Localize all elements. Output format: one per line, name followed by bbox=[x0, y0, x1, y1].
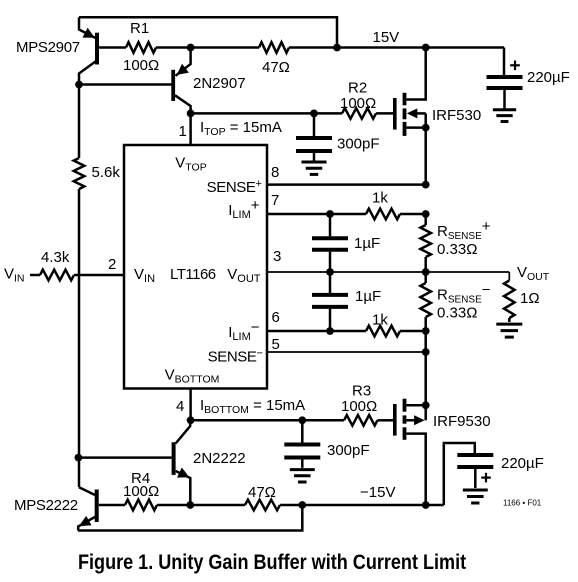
transistor 2N2222 emitter with arrow bbox=[176, 468, 191, 506]
label figure number 1166 F01 bbox=[503, 499, 542, 508]
label RSENSE- value bbox=[437, 305, 477, 322]
wire right rail pin5 to IRF9530 bbox=[424, 352, 427, 405]
svg-text:100Ω: 100Ω bbox=[341, 398, 377, 415]
label VTOP pin name bbox=[175, 155, 206, 174]
label VOUT pin name bbox=[227, 266, 261, 285]
wire left vertical rail lower bbox=[78, 189, 81, 458]
node pin7 cap junction bbox=[326, 210, 334, 218]
svg-text:0.33Ω: 0.33Ω bbox=[437, 305, 477, 322]
label pin 7 bbox=[271, 192, 279, 209]
wire left vertical rail upper bbox=[78, 85, 81, 159]
wire R3 to IRF9530 gate bbox=[378, 419, 394, 422]
svg-text:5: 5 bbox=[272, 336, 280, 353]
svg-text:SENSE+: SENSE+ bbox=[207, 178, 262, 196]
svg-text:2N2907: 2N2907 bbox=[193, 75, 246, 92]
transistor IRF9530 gate bar bbox=[393, 404, 397, 436]
ground 300pF bottom bbox=[290, 470, 315, 482]
label IRF9530 bbox=[433, 413, 491, 430]
resistor RSENSE- zigzag bbox=[420, 272, 431, 331]
node pin6 cap junction bbox=[326, 327, 334, 335]
op-amp U1 LT1166 box bbox=[124, 145, 267, 389]
label 220uF top bbox=[527, 69, 570, 86]
svg-text:300pF: 300pF bbox=[327, 442, 370, 459]
wire 47ohm to -15V rail bbox=[280, 504, 444, 507]
transistor MPS2907 collector bbox=[79, 62, 96, 85]
ground 1 ohm load bbox=[496, 324, 522, 337]
resistor 1k top zigzag bbox=[366, 209, 400, 220]
label 15V bbox=[373, 29, 400, 46]
svg-text:SENSE−: SENSE− bbox=[208, 348, 263, 366]
wire bottom return bbox=[78, 505, 302, 531]
transistor IRF9530 drain stub bbox=[406, 434, 425, 505]
transistor IRF9530 source stub bbox=[406, 404, 425, 407]
node left bias node bbox=[75, 454, 83, 462]
label plus top capacitor bbox=[510, 61, 520, 71]
resistor 1k bottom zigzag bbox=[366, 326, 400, 337]
wire top rail from MPS2907 emitter to 15V corner bbox=[79, 17, 337, 47]
svg-text:0.33Ω: 0.33Ω bbox=[437, 241, 477, 258]
label pin 1 bbox=[179, 123, 187, 140]
svg-text:5.6k: 5.6k bbox=[92, 164, 121, 181]
wire pin 1 vertical into box bbox=[189, 113, 192, 145]
node pin6 rail junction bbox=[422, 327, 430, 335]
transistor MPS2222 base bar bbox=[95, 490, 99, 523]
svg-text:IRF530: IRF530 bbox=[432, 107, 481, 124]
resistor R1 zigzag bbox=[126, 42, 156, 53]
transistor MPS2907 base bar bbox=[95, 33, 99, 65]
wire 2N2222 base wire bbox=[79, 456, 172, 459]
svg-text:8: 8 bbox=[271, 164, 279, 181]
label plus bottom capacitor bbox=[481, 473, 491, 483]
node 300pF bottom junction bbox=[298, 416, 306, 424]
label 220uF bottom bbox=[501, 455, 544, 472]
label SENSE+ pin name bbox=[207, 178, 262, 196]
wire VOUT corner down bbox=[508, 272, 510, 281]
wire pin 7 to 1k bbox=[267, 213, 366, 216]
wire 220uF bottom to ground bbox=[474, 469, 477, 488]
transistor 2N2907 emitter with arrow bbox=[176, 48, 191, 76]
transistor IRF530 source stub bbox=[406, 126, 425, 129]
label RSENSE- bbox=[437, 282, 491, 306]
ground 220uF top bbox=[493, 110, 516, 122]
wire -15V to bottom capacitor bbox=[444, 443, 475, 505]
svg-text:3: 3 bbox=[273, 248, 281, 265]
transistor MPS2907 emitter with arrow bbox=[79, 17, 96, 38]
label MPS2907 bbox=[16, 39, 80, 56]
resistor RSENSE+ zigzag bbox=[420, 214, 431, 272]
label RSENSE+ value bbox=[437, 241, 477, 258]
node pin 4 junction bbox=[187, 416, 195, 424]
label VBOTTOM pin name bbox=[165, 367, 220, 386]
svg-text:100Ω: 100Ω bbox=[340, 95, 376, 112]
ground 300pF top bbox=[302, 162, 327, 174]
node pin8 junction bbox=[422, 181, 430, 189]
svg-text:7: 7 bbox=[271, 192, 279, 209]
node 2N2222 emitter junction bbox=[186, 501, 194, 509]
svg-text:100Ω: 100Ω bbox=[123, 483, 159, 500]
node pin 1 junction bbox=[187, 110, 195, 118]
label 2N2222 bbox=[193, 450, 246, 467]
resistor 5.6k zigzag bbox=[74, 158, 85, 189]
wire pin 3 VOUT bbox=[267, 271, 509, 273]
label R4 bbox=[131, 470, 150, 487]
wire 4.3k to pin 2 bbox=[74, 274, 124, 277]
label 1k bottom bbox=[372, 312, 388, 329]
transistor 2N2907 collector bbox=[175, 95, 191, 113]
label ILIM+ pin name bbox=[228, 197, 260, 221]
wire pin1 to R2 bbox=[191, 112, 342, 115]
label VOUT terminal bbox=[517, 264, 550, 283]
svg-text:R3: R3 bbox=[352, 383, 371, 400]
wire R2 to IRF530 gate bbox=[376, 112, 393, 115]
label ILIM- pin name bbox=[228, 319, 260, 343]
wire MPS2222 base to R4 bbox=[99, 504, 125, 507]
label MPS2222 bbox=[14, 497, 78, 514]
svg-text:1k: 1k bbox=[372, 312, 388, 329]
transistor 2N2222 base bar bbox=[172, 442, 176, 475]
node pin7 rail junction bbox=[422, 210, 430, 218]
svg-text:−15V: −15V bbox=[360, 484, 395, 501]
wire right rail IRF530 source to pin8 bbox=[424, 128, 427, 185]
label 300pF bottom bbox=[327, 442, 370, 459]
transistor MPS2222 emitter with arrow bbox=[78, 516, 95, 531]
capacitor 300pF bottom bbox=[284, 420, 320, 468]
resistor R3 zigzag bbox=[344, 415, 377, 426]
label R4 value bbox=[123, 483, 159, 500]
node IRF530 drain junction on 15V rail bbox=[422, 44, 430, 52]
label 47&#937; top bbox=[262, 59, 290, 76]
label VIN pin name bbox=[134, 266, 155, 285]
wire left rail to MPS2222 collector bbox=[78, 458, 81, 488]
svg-text:100Ω: 100Ω bbox=[123, 57, 159, 74]
ground 220uF bottom bbox=[463, 490, 488, 503]
svg-text:MPS2222: MPS2222 bbox=[14, 497, 78, 514]
label 1uF bottom bbox=[355, 288, 381, 305]
label -15V bbox=[360, 484, 395, 501]
label 2N2907 bbox=[193, 75, 246, 92]
transistor IRF9530 body arrow bbox=[406, 405, 425, 425]
resistor 47&#937; top zigzag bbox=[259, 42, 289, 53]
capacitor 1uF top bbox=[312, 214, 348, 272]
wire 220uF top to ground bbox=[503, 90, 506, 109]
label pin 2 bbox=[108, 256, 116, 273]
capacitor 300pF top bbox=[296, 113, 332, 160]
wire pin 5 SENSE- bbox=[267, 351, 426, 353]
node bottom return junction bbox=[298, 501, 306, 509]
resistor 4.3k zigzag bbox=[40, 270, 74, 281]
wire pin 4 vertical bbox=[189, 389, 192, 421]
transistor 2N2907 base bar bbox=[171, 70, 175, 101]
label pin 8 bbox=[271, 164, 279, 181]
wire right rail pin6 to pin5 bbox=[424, 331, 427, 352]
transistor 2N2222 collector bbox=[176, 420, 191, 443]
svg-text:220µF: 220µF bbox=[501, 455, 544, 472]
svg-text:2: 2 bbox=[108, 256, 116, 273]
wire pin4 to R3 bbox=[191, 419, 344, 422]
label VIN input terminal bbox=[4, 266, 25, 285]
wire 15V rail to top capacitor bbox=[503, 48, 506, 76]
label R2 value bbox=[340, 95, 376, 112]
node pin3 rail junction bbox=[422, 268, 430, 276]
resistor R4 zigzag bbox=[125, 500, 157, 511]
capacitor 220uF top plates bbox=[487, 77, 523, 88]
label 1k top bbox=[372, 190, 388, 207]
label pin 5 bbox=[272, 336, 280, 353]
transistor IRF530 drain stub bbox=[406, 48, 425, 100]
node pin5 rail junction bbox=[422, 348, 430, 356]
label R1 bbox=[130, 20, 149, 37]
svg-text:4: 4 bbox=[176, 398, 184, 415]
svg-text:R2: R2 bbox=[348, 80, 367, 97]
svg-text:220µF: 220µF bbox=[527, 69, 570, 86]
label 1&#937; bbox=[520, 290, 540, 307]
svg-text:1166 • F01: 1166 • F01 bbox=[503, 499, 542, 508]
label 300pF top bbox=[337, 136, 380, 153]
wire 1ohm to ground bbox=[508, 318, 511, 322]
capacitor 1uF bottom bbox=[312, 272, 348, 331]
svg-text:MPS2907: MPS2907 bbox=[16, 39, 80, 56]
transistor IRF530 body arrow bbox=[407, 108, 426, 127]
svg-text:LT1166: LT1166 bbox=[170, 266, 216, 283]
svg-text:300pF: 300pF bbox=[337, 136, 380, 153]
label IRF530 bbox=[432, 107, 481, 124]
transistor MPS2222 collector bbox=[79, 487, 95, 495]
wire R4 to 2N2222 emitter node bbox=[157, 504, 245, 507]
label ITOP current bbox=[200, 119, 282, 138]
svg-text:4.3k: 4.3k bbox=[41, 249, 70, 266]
label 1uF top bbox=[354, 235, 380, 252]
node IRF9530 source junction bbox=[422, 401, 430, 409]
resistor 1&#937; load zigzag bbox=[504, 281, 515, 318]
label 47&#937; bottom bbox=[248, 484, 276, 501]
svg-text:2N2222: 2N2222 bbox=[193, 450, 246, 467]
wire 1k bottom to rail bbox=[400, 330, 426, 333]
label R3 value bbox=[341, 398, 377, 415]
node 15V junction at rail corner bbox=[333, 44, 341, 52]
wire pin 6 to 1k bbox=[267, 330, 366, 333]
svg-text:1k: 1k bbox=[372, 190, 388, 207]
svg-text:IRF9530: IRF9530 bbox=[433, 413, 491, 430]
resistor R2 zigzag bbox=[342, 108, 376, 119]
wire 1k to right rail bbox=[400, 213, 426, 216]
label IBOTTOM current bbox=[200, 397, 305, 416]
svg-text:R1: R1 bbox=[130, 20, 149, 37]
label SENSE- pin name bbox=[208, 348, 263, 366]
label LT1166 bbox=[170, 266, 216, 283]
wire 15V horizontal rail bbox=[99, 46, 504, 49]
node IRF530 source junction bbox=[422, 124, 430, 132]
svg-text:1µF: 1µF bbox=[355, 288, 381, 305]
label pin 4 bbox=[176, 398, 184, 415]
svg-text:47Ω: 47Ω bbox=[262, 59, 290, 76]
node 300pF top junction bbox=[310, 110, 318, 118]
node pin3 cap junction bbox=[326, 268, 334, 276]
node MPS2907 collector junction bbox=[75, 81, 83, 89]
label 4.3k bbox=[41, 249, 70, 266]
label pin 3 bbox=[273, 248, 281, 265]
wire VIN stub bbox=[30, 274, 40, 277]
svg-text:6: 6 bbox=[272, 309, 280, 326]
transistor IRF530 gate bar bbox=[393, 98, 397, 130]
label R3 bbox=[352, 383, 371, 400]
transistor IRF9530 channel dashes bbox=[403, 399, 407, 440]
label RSENSE+ bbox=[437, 218, 491, 242]
label R1 value 100&#937; bbox=[123, 57, 159, 74]
label 5.6k bbox=[92, 164, 121, 181]
node junction R1/47ohm/2N2907 emitter bbox=[187, 44, 195, 52]
svg-text:15V: 15V bbox=[373, 29, 400, 46]
svg-text:47Ω: 47Ω bbox=[248, 484, 276, 501]
node -15V rail junction bbox=[422, 501, 430, 509]
label figure caption bbox=[78, 551, 466, 575]
svg-text:Figure 1. Unity Gain Buffer wi: Figure 1. Unity Gain Buffer with Current… bbox=[78, 551, 466, 575]
label pin 6 bbox=[272, 309, 280, 326]
capacitor 220uF bottom plates bbox=[457, 455, 493, 467]
wire 2N2907 base wire bbox=[79, 83, 172, 86]
svg-text:1: 1 bbox=[179, 123, 187, 140]
label R2 bbox=[348, 80, 367, 97]
resistor 47&#937; bottom zigzag bbox=[245, 500, 280, 511]
transistor IRF530 channel dashes bbox=[403, 93, 407, 136]
svg-text:1µF: 1µF bbox=[354, 235, 380, 252]
svg-text:1Ω: 1Ω bbox=[520, 290, 540, 307]
wire pin 8 SENSE+ bbox=[267, 183, 426, 186]
